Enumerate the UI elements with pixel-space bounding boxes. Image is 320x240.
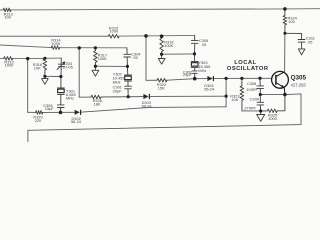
node bus2/R322-feed junction [144, 34, 148, 38]
diode D303 [143, 94, 150, 99]
resistor R314 [51, 46, 59, 50]
resistor R313 [4, 57, 13, 61]
svg-text:220: 220 [35, 118, 42, 123]
node emitter junction [283, 93, 287, 97]
svg-text:100PF: 100PF [246, 87, 258, 92]
node bus3/crystal-feed junction [78, 46, 81, 49]
wire collector vertical [284, 33, 286, 72]
label Q305 [291, 75, 307, 88]
svg-text:C309: C309 [250, 97, 259, 102]
node bus4/R316 junction [43, 57, 46, 60]
resistor R325 [261, 95, 285, 113]
label R325 [268, 113, 278, 121]
svg-text:MHz: MHz [113, 79, 121, 84]
node R317/ground junction [94, 65, 97, 68]
svg-text:.05: .05 [201, 42, 206, 47]
label R318 [164, 40, 173, 48]
resistor R322 [157, 78, 167, 82]
wire top supply rail [0, 9, 320, 10]
label C308 [43, 103, 54, 111]
node emitter/C306 junction [259, 93, 262, 96]
resistor R315 [108, 34, 119, 38]
resistor R329 [36, 111, 43, 115]
svg-text:1000: 1000 [110, 29, 119, 34]
label D302 [71, 116, 82, 124]
label R322 [157, 82, 166, 90]
svg-text:97-05: 97-05 [63, 65, 73, 70]
crystal Y303 [191, 54, 198, 71]
crystal Y302 [125, 66, 132, 86]
wire emitter row [260, 93, 301, 96]
svg-text:20pF: 20pF [113, 89, 122, 94]
svg-text:1000: 1000 [268, 116, 277, 121]
label R317 [98, 52, 107, 60]
label Y303 [198, 60, 210, 73]
diode D302 [75, 110, 82, 115]
node C306 top junction [258, 77, 261, 80]
label R312 [4, 11, 13, 19]
resistor R312 [3, 8, 11, 12]
svg-text:.05: .05 [132, 55, 137, 60]
node C303/Y301 junction [59, 75, 62, 78]
wire bus4 [0, 57, 61, 60]
node C309/ground junction [259, 109, 262, 112]
node R316/ground junction [43, 75, 46, 78]
label R329 [33, 115, 42, 123]
capacitor C308 [57, 105, 64, 113]
ground under C311 [298, 49, 305, 55]
node R318/ground junction [160, 53, 163, 56]
svg-text:C306: C306 [247, 81, 256, 86]
capacitor C304 [124, 48, 131, 67]
svg-text:56-24: 56-24 [71, 119, 82, 124]
svg-text:56-24: 56-24 [142, 103, 153, 108]
capacitor C311 [285, 33, 305, 48]
wire bus2 [0, 34, 195, 37]
resistor R324 vertical [283, 9, 287, 33]
node bus3/R317 junction [94, 46, 97, 49]
svg-text:100: 100 [4, 15, 11, 20]
svg-text:OSCILLATOR: OSCILLATOR [227, 66, 269, 72]
node bus2/R318 junction [160, 34, 164, 38]
ground under R317 [92, 66, 99, 76]
node R324/C311 junction [283, 32, 286, 35]
wire diode merge vertical [225, 78, 227, 106]
capacitor C302 [192, 71, 197, 79]
label R315 [109, 25, 119, 33]
node C302/base-row junction [193, 77, 197, 81]
label C303 [63, 61, 73, 69]
svg-text:15K: 15K [158, 86, 165, 91]
svg-text:18K: 18K [94, 101, 101, 106]
label R314 [51, 38, 61, 46]
node supply/R324 junction [283, 7, 287, 11]
label R323 [230, 94, 239, 102]
svg-text:1000: 1000 [51, 41, 60, 46]
capacitor C306 [257, 78, 264, 94]
svg-text:MHz: MHz [66, 95, 74, 100]
wire vertical bus2 to R322 [145, 36, 147, 80]
node C304/Y302 junction [126, 65, 129, 68]
node bus4/vertical junction [26, 57, 29, 60]
label D304 [204, 83, 215, 91]
resistor R316 vertical [43, 58, 47, 76]
wire R326 D303 row [79, 96, 226, 97]
resistor R326 [91, 95, 101, 99]
label R316 [33, 62, 42, 70]
label D303 [142, 100, 153, 108]
label Y302 [113, 72, 125, 85]
wire output loop [28, 94, 301, 142]
svg-text:100K: 100K [164, 43, 173, 48]
svg-text:.05: .05 [307, 39, 312, 44]
wire bus3 [0, 45, 127, 48]
label C302 [183, 69, 193, 77]
label C306 [246, 81, 258, 92]
svg-text:417-293: 417-293 [291, 82, 307, 87]
wire R316 bottom to C303 node [45, 75, 61, 77]
svg-text:Q305: Q305 [291, 75, 307, 82]
label C305 [199, 38, 208, 47]
crystal Y301 [57, 77, 64, 105]
wire vertical from bus4 down [27, 59, 29, 113]
svg-text:MHz: MHz [198, 68, 206, 73]
node R323 top junction [240, 77, 243, 80]
label LOCAL OSCILLATOR [227, 60, 269, 72]
svg-text:10K: 10K [34, 65, 41, 70]
label C301 [113, 85, 122, 94]
label Y301 [66, 88, 76, 100]
resistor R317 vertical [94, 48, 98, 66]
node C301/D303 junction [127, 95, 130, 98]
node diode-merge/D303-row junction [225, 95, 228, 98]
label R313 [4, 59, 14, 67]
wire vertical from bus3 down [78, 48, 80, 97]
ground under C309 [257, 111, 265, 121]
wire oscillator base row [146, 78, 272, 80]
node C308/D302 junction [59, 111, 63, 115]
svg-text:56-24: 56-24 [204, 86, 215, 91]
wire R323 bottom to ground node [242, 110, 261, 112]
svg-text:270PF: 270PF [244, 105, 256, 110]
ground under R316 [42, 76, 49, 84]
capacitor C309 [257, 95, 264, 111]
wire bottom crystal row [28, 107, 226, 113]
ground under R318 [158, 54, 165, 64]
svg-text:10K: 10K [231, 97, 238, 102]
label R326 [93, 98, 102, 106]
resistor R318 vertical [160, 36, 164, 54]
node C305/Y303 junction [193, 52, 196, 55]
svg-text:100K: 100K [98, 56, 107, 61]
svg-text:24pF: 24pF [183, 72, 192, 77]
svg-text:100: 100 [288, 19, 295, 24]
label R324 [288, 15, 298, 23]
wire R318 bottom to C305 node [162, 53, 195, 55]
capacitor C303 trimmer [57, 58, 65, 76]
svg-text:1000: 1000 [5, 63, 14, 68]
label C309 [244, 97, 259, 111]
label C311 [306, 36, 315, 45]
node diode-merge top junction [225, 77, 228, 80]
diode D304 [207, 76, 214, 81]
resistor R323 vertical [240, 78, 244, 111]
svg-text:15pF: 15pF [45, 106, 54, 111]
wire R317 bottom to C304 node [95, 65, 127, 67]
transistor Q305 [272, 71, 289, 94]
capacitor C305 [191, 35, 198, 54]
label C304 [131, 52, 141, 61]
capacitor C301 [125, 86, 132, 97]
